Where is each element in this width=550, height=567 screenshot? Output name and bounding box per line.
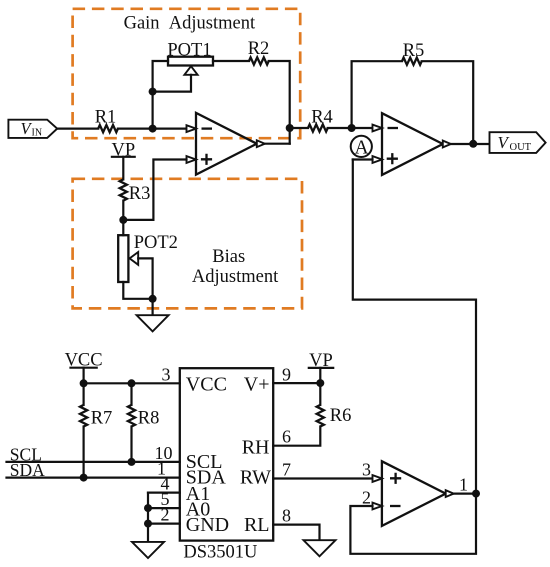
gain adjustment dashed box [73, 9, 301, 138]
U3 output arrow [446, 490, 454, 497]
wire VCC to bus [82, 368, 84, 384]
svg-text:OUT: OUT [510, 142, 532, 153]
svg-text:RL: RL [244, 514, 270, 536]
wire R5 to output node [422, 61, 474, 144]
U3 inverting input arrow [373, 503, 382, 510]
wire RL pin 8 [273, 525, 319, 541]
wire junction down to POT2 [122, 220, 124, 235]
svg-text:VCC: VCC [186, 374, 227, 396]
U2 plus sign [387, 153, 398, 164]
resistor R3 [120, 179, 127, 200]
junction POT2 bottom/wiper [149, 295, 157, 303]
VCC underline [71, 367, 97, 369]
wire junction to U1 non-inverting input [123, 160, 186, 220]
POT2 wiper arrow [130, 252, 139, 265]
resistor R2 [249, 57, 269, 64]
wire R1 to opamp1 inverting input [118, 128, 187, 130]
output port VOUT tag [490, 132, 546, 153]
resistor R8 [128, 405, 135, 427]
svg-text:R3: R3 [129, 184, 151, 204]
POT1 wiper arrow [184, 66, 197, 75]
U2 minus sign [388, 127, 399, 129]
wire R4 to U2 inverting input [328, 127, 373, 129]
svg-text:Adjustment: Adjustment [192, 267, 279, 287]
potentiometer POT2 body [118, 235, 128, 282]
svg-text:GND: GND [186, 514, 229, 536]
resistor R4 run [290, 127, 308, 129]
svg-text:3: 3 [362, 460, 371, 480]
ground symbol (chip) [132, 542, 164, 558]
junction VCC/R7 [80, 379, 88, 387]
junction output node / R4 [286, 124, 294, 132]
junction GND [144, 520, 152, 528]
U2 output arrow [443, 141, 451, 148]
U3 minus sign [390, 505, 401, 507]
svg-text:IN: IN [32, 127, 43, 138]
wire chip pin 9 V+ to VP node [273, 382, 320, 384]
svg-text:RW: RW [240, 467, 271, 489]
junction R4/R5 feedback [348, 124, 356, 132]
svg-text:8: 8 [282, 506, 291, 526]
wire address/gnd vertical [147, 493, 149, 542]
resistor R5 [402, 58, 422, 65]
wire A1 pin 4 [148, 492, 180, 494]
ground symbol (bias network) [137, 315, 169, 331]
svg-text:Bias: Bias [212, 247, 245, 267]
wire U2 output to VOUT [451, 143, 490, 145]
wire node A down and across to buffer output [353, 160, 476, 494]
wire to ground (bias) [152, 299, 154, 315]
svg-text:R5: R5 [403, 41, 425, 61]
svg-text:2: 2 [362, 487, 371, 507]
wire GND pin 2 [148, 522, 180, 524]
wire U2 plus input from node A corner [353, 158, 373, 160]
svg-text:9: 9 [282, 364, 291, 384]
junction node R1/POT1 [149, 125, 157, 133]
wire POT2 bottom terminal to junction [123, 282, 152, 299]
resistor R8 top lead [130, 383, 132, 405]
svg-text:DS3501U: DS3501U [183, 542, 257, 562]
U1 minus sign [202, 127, 213, 129]
U3 plus sign [390, 473, 401, 484]
U1 output arrow [257, 140, 265, 147]
op-amp U2 body [382, 113, 443, 175]
VP underline [112, 156, 135, 158]
U2 non-inverting input arrow [373, 156, 383, 163]
svg-text:POT1: POT1 [167, 40, 211, 60]
svg-text:6: 6 [282, 427, 291, 447]
bias adjustment dashed box [73, 179, 302, 309]
svg-text:V+: V+ [244, 374, 270, 396]
junction A0 [144, 504, 152, 512]
U2 inverting input arrow [373, 125, 383, 132]
svg-text:7: 7 [282, 460, 291, 480]
junction R7/SDA [80, 474, 88, 482]
U3 non-inverting input arrow [373, 475, 382, 482]
wire POT1 right terminal to R2 [213, 60, 249, 62]
wire A0 pin 5 [148, 507, 180, 509]
wire VIN to R1 [57, 128, 98, 130]
resistor R7 [80, 405, 87, 427]
svg-text:R7: R7 [91, 408, 113, 428]
VP underline (lower) [309, 367, 333, 369]
junction R3/POT2/U1+ [119, 216, 127, 224]
svg-text:Gain Adjustment: Gain Adjustment [124, 14, 256, 34]
node A marker circle [351, 136, 372, 157]
POT2 wiper wire right and down [138, 258, 152, 298]
wire R7 to SDA [82, 427, 84, 478]
svg-text:R1: R1 [95, 108, 117, 128]
wire U1 output to node [265, 143, 290, 145]
op-amp U1 body [196, 113, 257, 175]
resistor R6 top lead [319, 383, 321, 405]
wire VCC bus to chip pin 3 [84, 382, 180, 384]
wire R6 to RH pin 6 [273, 427, 320, 446]
wire RW pin 7 to buffer non-inverting input [273, 477, 372, 479]
wire U3 feedback loop [350, 494, 476, 554]
svg-text:1: 1 [459, 474, 468, 494]
wire VP to R3 [122, 157, 124, 180]
ground symbol (RL) [304, 540, 336, 556]
svg-text:R8: R8 [138, 408, 160, 428]
IC DS3501U body [180, 368, 273, 540]
wire SCL bus to chip pin 10 [7, 461, 180, 463]
op-amp U3 body [382, 461, 446, 526]
wire U3 output to node [454, 493, 476, 495]
U1 non-inverting input arrow [187, 156, 197, 163]
wire junction up to POT1 left terminal [153, 61, 168, 129]
resistor R4 [308, 124, 328, 131]
input port VIN tag [8, 120, 57, 138]
junction wiper/left-terminal [149, 88, 157, 96]
svg-text:R4: R4 [311, 107, 333, 127]
svg-text:R6: R6 [330, 406, 352, 426]
junction VOUT node [469, 140, 477, 148]
POT1 wiper wire down and left [153, 75, 191, 92]
svg-text:R2: R2 [248, 39, 270, 59]
svg-text:POT2: POT2 [134, 233, 178, 253]
wire SDA bus to chip pin 1 [7, 477, 180, 479]
U1 plus sign [201, 154, 212, 165]
junction R8/SCL [128, 458, 136, 466]
potentiometer POT1 body [168, 57, 213, 66]
resistor R7 top lead [82, 383, 84, 405]
resistor R1 [98, 125, 118, 132]
junction U3 output [472, 490, 480, 498]
wire feedback left vertical [352, 61, 402, 128]
U1 inverting input arrow [187, 125, 197, 132]
svg-text:3: 3 [162, 364, 171, 384]
wire R3 to junction [122, 201, 124, 220]
svg-text:RH: RH [242, 437, 270, 459]
junction VP/R6 [316, 379, 324, 387]
wire R2 to output node vertical [269, 61, 290, 144]
svg-text:A: A [354, 137, 368, 158]
wire VP to V+ node [319, 368, 321, 383]
wire R8 to SCL [130, 427, 132, 462]
junction VCC/R8 [128, 379, 136, 387]
resistor R6 [317, 405, 324, 427]
